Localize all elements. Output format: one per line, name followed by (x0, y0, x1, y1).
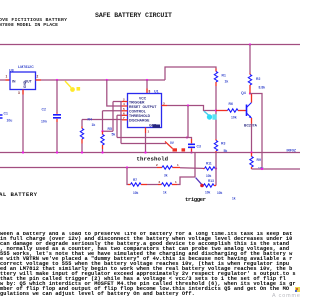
pin 6 threshold (122, 112, 128, 116)
node junction control/divider (101, 130, 103, 132)
svg-text:N7808 MODEL IN PLACE: N7808 MODEL IN PLACE (0, 22, 58, 28)
node junction feedback/control wire (186, 136, 188, 138)
wire rail to 555 vcc pin (146, 80, 148, 89)
svg-text:5k: 5k (112, 133, 116, 137)
svg-text:0V: 0V (170, 141, 175, 145)
node junction C3 bottom rail (190, 151, 192, 153)
op-amp timer U1 555 (128, 90, 162, 128)
svg-text:RESET: RESET (129, 105, 141, 109)
wire bottom rail (0, 152, 300, 154)
description paragraph (0, 232, 300, 298)
watermark (272, 293, 301, 299)
svg-text:1: 1 (175, 180, 177, 184)
resistor R11 (row1 right) (203, 162, 216, 179)
pin 4 reset (122, 102, 128, 106)
node junction R2 bottom / collector (249, 92, 251, 94)
wire trigger pin routing (103, 102, 123, 132)
svg-text:1: 1 (177, 163, 179, 167)
resistor R13 (row2 right) (200, 179, 236, 201)
svg-text:BC237A: BC237A (244, 124, 258, 128)
svg-text:10k: 10k (217, 191, 223, 195)
svg-text:SAFE BATTERY CIRCUIT: SAFE BATTERY CIRCUIT (95, 12, 172, 19)
wire 555 output run (167, 106, 216, 111)
wire R1 bottom down through junction to R3 (215, 86, 217, 139)
svg-text:GND: GND (23, 80, 27, 88)
node label real battery (0, 191, 38, 198)
svg-text:5k: 5k (224, 149, 228, 153)
wire collector node to x262 drop (250, 94, 262, 170)
wire regulator ground down to bottom rail (22, 95, 24, 153)
svg-text:OUTPUT: OUTPUT (143, 105, 158, 109)
svg-text:2: 2 (159, 180, 161, 184)
svg-text:8.8k: 8.8k (259, 86, 266, 90)
node net label threshold (137, 156, 169, 163)
wire row2 middle (147, 184, 158, 186)
voltage regulator U8 LM7812C (9, 65, 36, 90)
pin 1 gnd 555 (146, 128, 150, 134)
wire control pin routing (103, 111, 123, 132)
svg-text:10u: 10u (7, 119, 13, 123)
resistor R7 (128, 178, 147, 195)
wire main 8V rail (41, 79, 165, 81)
svg-text:IN: IN (12, 80, 16, 84)
marker red probe near C3 (165, 141, 185, 152)
transistor Q4 (241, 91, 258, 128)
node junction rail at x147 (VCC feed) (146, 79, 148, 81)
node yellow probe marker (65, 81, 80, 92)
node junction x262/y169 (261, 168, 263, 170)
svg-text:Q4: Q4 (241, 91, 246, 95)
pin 5 control (122, 107, 128, 111)
svg-text:2: 2 (37, 75, 39, 79)
svg-text:3: 3 (163, 101, 165, 105)
title text (95, 12, 172, 19)
wire discharge pin routing (82, 120, 122, 127)
wire trigger lower net y143.5 (121, 143, 166, 145)
svg-text:U1: U1 (154, 90, 159, 94)
pin 8 vcc 555 (147, 89, 151, 94)
svg-text:R4: R4 (88, 118, 92, 122)
wire top rail down to R2 (249, 45, 251, 74)
wire x127 down to row2 (127, 168, 128, 185)
node junction output/feedback (187, 104, 189, 106)
svg-text:1k: 1k (232, 197, 236, 201)
node junction rail at x106.8 (106, 79, 108, 81)
pin 2 regulator output (36, 75, 42, 81)
wire top rail (0, 44, 300, 46)
pin 1 regulator U8 (6, 75, 11, 81)
svg-text:R2: R2 (256, 77, 260, 81)
svg-text:U8: U8 (9, 69, 14, 73)
svg-text:R3: R3 (221, 142, 225, 146)
svg-text:threshold: threshold (137, 156, 169, 163)
node net label trigger (185, 196, 206, 203)
wire load net y169 (252, 168, 301, 170)
svg-text:R9: R9 (257, 158, 261, 162)
svg-text:C3: C3 (197, 145, 201, 149)
svg-text:trigger: trigger (185, 196, 206, 203)
svg-text:2: 2 (156, 163, 158, 167)
wire trigger-lower routing (120, 102, 122, 144)
wire battery input to regulator (0, 79, 6, 81)
svg-text:10n: 10n (41, 120, 47, 124)
resistor R12 (row2 mid) (158, 180, 177, 195)
svg-text:1k: 1k (225, 80, 229, 84)
svg-text:C1: C1 (4, 112, 8, 116)
svg-text:R6: R6 (229, 102, 233, 106)
wire threshold pin routing (117, 115, 122, 137)
svg-text:1: 1 (6, 75, 8, 79)
svg-text:DISCHARGE: DISCHARGE (129, 119, 150, 123)
wire 555 gnd to bottom rail (145, 133, 147, 153)
wire rail drop x195 (194, 153, 196, 178)
resistor R3 (214, 139, 227, 153)
resistor R1 (214, 69, 228, 87)
resistor R8 (row1 left) (156, 163, 180, 178)
wire x216 below rail (215, 153, 217, 186)
svg-text:1k: 1k (92, 123, 96, 127)
LED D1 (cyan) (204, 111, 217, 120)
svg-text:C2: C2 (42, 108, 46, 112)
resistor R6 (216, 102, 247, 119)
wire divider net y167.5 (0, 167, 157, 169)
node junctions on bottom rail (22, 151, 253, 153)
pin 7 discharge (122, 116, 128, 120)
svg-text:R1: R1 (222, 74, 226, 78)
pin 3 regulator ground (18, 90, 23, 96)
capacitor C1 (cut at left edge) (0, 112, 12, 123)
node junction top rail R2 (249, 43, 251, 45)
wire jog up to R1 (165, 67, 216, 80)
pin 3 output (162, 101, 168, 105)
wire emitter down to rail (251, 124, 253, 153)
wire C2 down to bottom rail (56, 122, 58, 153)
wire row2 jog up (177, 177, 195, 185)
svg-text:3k: 3k (164, 174, 168, 178)
node junction rail at x57 (56, 79, 58, 81)
svg-text:IRF9Z: IRF9Z (287, 149, 296, 153)
svg-text:R11: R11 (206, 162, 212, 166)
svg-text:LM7812C: LM7812C (18, 65, 34, 69)
annotation note top-left (0, 17, 67, 28)
svg-text:1k: 1k (163, 191, 167, 195)
svg-text:THRESHOLD: THRESHOLD (129, 114, 151, 118)
wire feedback vertical x188 (187, 106, 189, 138)
resistor R2 (248, 73, 265, 94)
transistor M4 label (cut at right edge) (287, 149, 296, 153)
resistor R4 (80, 118, 95, 153)
node junction R1/R6 (215, 109, 217, 111)
wire row1 middle (180, 167, 203, 170)
svg-text:1: 1 (148, 130, 150, 134)
wire rail to 555 reset pin (107, 80, 122, 106)
capacitor C3 (188, 139, 201, 153)
svg-text:3: 3 (18, 91, 20, 95)
svg-text:10k: 10k (205, 191, 211, 195)
svg-text:10k: 10k (133, 191, 139, 195)
node junction x127 (126, 166, 128, 168)
svg-text:TRIGGER: TRIGGER (129, 101, 145, 105)
resistor R5 (101, 127, 116, 153)
diode D2 diagonal (196, 178, 203, 185)
svg-text:10k: 10k (206, 174, 212, 178)
svg-text:AL BATTERY: AL BATTERY (0, 191, 38, 198)
wire from rail down to C2 (56, 80, 58, 113)
svg-text:10k: 10k (231, 115, 237, 119)
capacitor C2 (41, 108, 61, 124)
svg-text:R13: R13 (208, 179, 214, 183)
pin 2 trigger (122, 98, 128, 102)
svg-text:CONTROL: CONTROL (129, 110, 146, 114)
wire control net horizontal y137.5 (117, 138, 192, 140)
resistor R9 (250, 153, 264, 171)
svg-text:R5: R5 (108, 127, 112, 131)
svg-text:R7: R7 (133, 178, 137, 182)
node junction row1/x216 (215, 167, 217, 169)
